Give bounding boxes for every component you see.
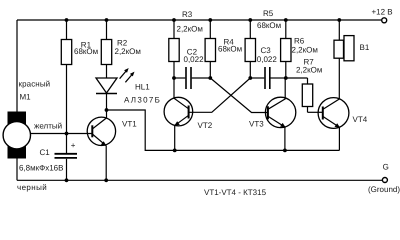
buzzer B1 bbox=[334, 20, 370, 61]
svg-text:HL1: HL1 bbox=[135, 82, 150, 91]
node A yellow tap junction bbox=[65, 132, 69, 136]
node dot R3/C2/VT2 collector bbox=[172, 76, 176, 80]
node dot R6/C3/VT3 collector bbox=[284, 76, 288, 80]
resistor R6 bbox=[281, 20, 318, 78]
svg-text:VT4: VT4 bbox=[353, 115, 368, 124]
svg-text:2,2кОм: 2,2кОм bbox=[115, 47, 141, 56]
wire motor bottom to ground rail bbox=[16, 159, 18, 181]
svg-text:68кОм: 68кОм bbox=[218, 45, 242, 54]
svg-text:C3: C3 bbox=[261, 46, 272, 55]
wire yellow tap motor to VT1 base bbox=[31, 133, 93, 135]
svg-text:R5: R5 bbox=[263, 9, 274, 18]
node dot top rail R1 bbox=[65, 18, 69, 22]
transistor VT2 bbox=[164, 78, 213, 150]
svg-text:VT3: VT3 bbox=[249, 119, 264, 128]
svg-text:(Ground): (Ground) bbox=[368, 185, 400, 194]
svg-text:G: G bbox=[383, 163, 389, 172]
node dot VT3 emitter bus bbox=[283, 149, 287, 153]
node dot top rail B1 bbox=[337, 18, 341, 22]
node dot C1 ground bbox=[65, 178, 69, 182]
resistor R3 bbox=[169, 10, 203, 78]
wire C1 to ground bbox=[66, 159, 68, 181]
svg-text:+: + bbox=[71, 141, 76, 150]
svg-text:VT2: VT2 bbox=[198, 121, 213, 130]
node dot VT2 emitter bus bbox=[173, 149, 177, 153]
svg-text:M1: M1 bbox=[20, 93, 32, 102]
wire cross-coupling R5 node to VT2 base bbox=[189, 78, 251, 112]
svg-text:черный: черный bbox=[17, 183, 47, 192]
svg-text:68кОм: 68кОм bbox=[257, 21, 281, 30]
svg-text:B1: B1 bbox=[360, 43, 370, 52]
svg-text:2,2кОм: 2,2кОм bbox=[177, 24, 203, 33]
resistor R1 bbox=[61, 20, 98, 134]
terminal +12 В bbox=[372, 8, 393, 23]
capacitor C2 bbox=[174, 47, 210, 89]
transistor VT4 bbox=[318, 58, 368, 150]
svg-text:68кОм: 68кОм bbox=[74, 47, 98, 56]
node dot R4/C2 bbox=[208, 76, 212, 80]
svg-text:VT1-VT4 - КТ315: VT1-VT4 - КТ315 bbox=[204, 188, 267, 197]
terminal G (Ground) bbox=[368, 163, 400, 195]
resistor R2 bbox=[101, 20, 141, 78]
svg-text:6,8мкФх16В: 6,8мкФх16В bbox=[19, 164, 63, 173]
node dot top rail R2 bbox=[105, 18, 109, 22]
svg-text:R3: R3 bbox=[182, 10, 193, 19]
motor M1 bbox=[3, 93, 31, 159]
svg-text:VT1: VT1 bbox=[122, 119, 137, 128]
node dot top rail R4 bbox=[208, 18, 212, 22]
transistor VT1 bbox=[87, 110, 137, 180]
svg-text:0,022: 0,022 bbox=[257, 55, 278, 64]
svg-text:2,2кОм: 2,2кОм bbox=[296, 66, 322, 75]
resistor R4 bbox=[205, 20, 242, 78]
node dot top rail R5 bbox=[248, 18, 252, 22]
svg-text:АЛ307Б: АЛ307Б bbox=[124, 95, 161, 104]
resistor R7 bbox=[286, 58, 323, 113]
svg-text:C1: C1 bbox=[40, 148, 51, 157]
wire VT1 collector node to emitter bus bbox=[107, 110, 340, 150]
node dot R5/C3 bbox=[248, 76, 252, 80]
ground rail bbox=[17, 179, 382, 181]
capacitor C1 bbox=[19, 141, 77, 173]
capacitor C3 bbox=[250, 46, 285, 89]
resistor R5 bbox=[245, 9, 281, 78]
svg-text:+12 В: +12 В bbox=[372, 8, 393, 17]
svg-text:R6: R6 bbox=[294, 36, 305, 45]
wire top +12V rail bbox=[17, 19, 381, 21]
node dot VT1 emitter ground bbox=[104, 178, 108, 182]
svg-text:красный: красный bbox=[19, 80, 51, 89]
transistor VT3 bbox=[249, 78, 296, 150]
wire node to C1 bbox=[66, 134, 68, 154]
svg-text:желтый: желтый bbox=[34, 122, 62, 131]
LED HL1 bbox=[96, 68, 161, 110]
wire left rail drop to motor bbox=[16, 20, 18, 112]
wire cross-coupling R4 node to VT3 base bbox=[210, 78, 268, 113]
node dot top rail R6 bbox=[284, 18, 288, 22]
node dot top rail R3 bbox=[172, 18, 176, 22]
node dot LED cathode / VT1 collector bbox=[105, 108, 109, 112]
svg-text:2,2кОм: 2,2кОм bbox=[292, 45, 318, 54]
svg-text:0,022: 0,022 bbox=[184, 55, 205, 64]
